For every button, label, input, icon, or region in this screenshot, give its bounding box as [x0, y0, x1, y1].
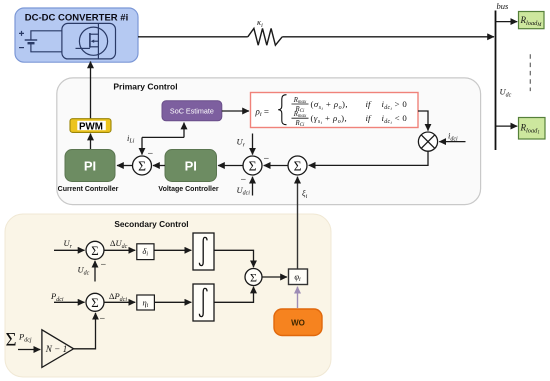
block PWM	[70, 119, 111, 133]
wire: SoC estimate to equation box	[222, 110, 249, 112]
wire: i_Li node into sumA and SoC estimate	[142, 123, 184, 155]
dashed separator between loads	[529, 54, 531, 91]
svg-text:Σ: Σ	[6, 330, 17, 351]
integrator 2	[193, 284, 214, 321]
summing junction D	[86, 293, 104, 311]
wire: sumA output to PI current	[117, 165, 132, 167]
wire: U_dc minus input into sumB	[94, 261, 96, 282]
block phi_i	[289, 269, 308, 285]
gain block N-1 (triangle)	[42, 330, 74, 368]
integrator 1	[193, 233, 214, 270]
block WO	[274, 309, 322, 336]
wire: sumB to delta_i block	[104, 249, 135, 251]
load R_loadM	[519, 12, 545, 29]
summing junction C	[245, 269, 262, 286]
wire: eta_i to integrator 2	[154, 301, 191, 303]
wire: equation box to multiplier	[418, 111, 428, 131]
container: Secondary Control	[5, 214, 331, 377]
MOSFET symbol inside converter	[62, 23, 116, 59]
battery source inside converter	[19, 31, 62, 52]
wire: converter output to resistor	[138, 36, 248, 38]
eq row 2 fraction	[292, 111, 309, 128]
wire: bus to R_loadM	[496, 21, 518, 23]
wire: U_dci into sum1 from below	[252, 177, 254, 196]
wire: PWM output up to converter gate	[90, 62, 92, 119]
block PI voltage controller	[165, 150, 217, 182]
svg-text:Σ: Σ	[250, 270, 257, 284]
block delta_i	[137, 244, 154, 260]
svg-text:Σ: Σ	[91, 296, 98, 310]
resistor kappa_i	[248, 28, 282, 45]
svg-text:Σ: Σ	[249, 158, 257, 173]
wire: xi_i from phi_i up into sum2	[297, 177, 299, 269]
container: Primary Control	[57, 78, 481, 205]
wire: U_r into sumB	[54, 249, 85, 251]
eq row 1 fraction	[292, 97, 309, 114]
wire: resistor to bus	[282, 36, 494, 38]
wire: PI voltage output to sumA	[153, 165, 165, 167]
wire: delta_i to integrator 1	[154, 249, 191, 251]
wire: summed power into gain block	[18, 349, 40, 351]
svg-text:N − 1: N − 1	[45, 344, 68, 354]
svg-text:bus: bus	[497, 1, 510, 11]
svg-text:Current Controller: Current Controller	[58, 186, 119, 193]
block SoC Estimate	[162, 101, 222, 121]
svg-text:Primary Control: Primary Control	[113, 82, 177, 92]
wire: PI current controller to PWM	[90, 134, 92, 150]
svg-text:PI: PI	[84, 159, 96, 174]
svg-text:−: −	[264, 154, 270, 165]
block PI current controller	[65, 150, 115, 182]
svg-text:WO: WO	[291, 319, 305, 328]
wire: sum2 output to sum1	[264, 165, 288, 167]
svg-text:Secondary Control: Secondary Control	[114, 219, 188, 229]
wire: multiplier output to sum2	[309, 151, 428, 165]
block: DC-DC converter #i	[15, 8, 138, 62]
svg-text:Voltage Controller: Voltage Controller	[158, 186, 218, 193]
wire: integrator 1 to sumC	[214, 250, 254, 267]
svg-text:PI: PI	[185, 159, 197, 174]
svg-text:−: −	[101, 260, 107, 271]
equation box rho_i	[251, 93, 419, 129]
wire: i_dci input to multiplier	[439, 141, 465, 143]
bus line	[495, 11, 497, 151]
svg-text:PWM: PWM	[79, 121, 103, 132]
wire: WO to phi_i (purple)	[297, 287, 299, 308]
svg-text:DC-DC CONVERTER #i: DC-DC CONVERTER #i	[25, 13, 128, 24]
svg-text:SoC Estimate: SoC Estimate	[170, 107, 214, 116]
svg-text:Σ: Σ	[294, 158, 302, 173]
wire: bus to R_load1	[496, 125, 518, 127]
wire: sumC to phi_i	[262, 276, 287, 278]
wire: integrator 2 to sumC	[214, 287, 254, 303]
wire: P_dci into sumD	[54, 301, 85, 303]
wire: sum1 output to PI voltage controller	[218, 165, 243, 167]
svg-text:−: −	[100, 314, 106, 325]
summing junction 1	[243, 156, 262, 175]
wire: gain output to sumD minus input	[74, 313, 96, 349]
svg-text:Σ: Σ	[91, 244, 98, 258]
svg-text:−: −	[148, 149, 154, 160]
wire: sumD to eta_i	[104, 301, 135, 303]
svg-text:Σ: Σ	[138, 158, 146, 173]
summing junction A	[133, 156, 152, 175]
multiplier junction	[418, 132, 437, 151]
load R_load1	[519, 118, 546, 140]
summing junction B	[86, 241, 104, 259]
wire: U_r into sum1	[252, 134, 254, 155]
block eta_i	[137, 295, 155, 310]
summing junction 2	[288, 156, 307, 175]
